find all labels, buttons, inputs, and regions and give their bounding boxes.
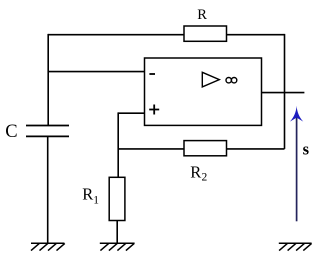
svg-text:C: C xyxy=(5,122,17,142)
wire non-inverting input (from + pin left) xyxy=(118,112,144,114)
svg-text:R: R xyxy=(190,163,201,182)
ground right xyxy=(279,243,312,250)
arrow s (output voltage) shaft xyxy=(296,116,298,221)
wire inverting input (to - pin) xyxy=(48,71,144,73)
svg-text:1: 1 xyxy=(93,194,99,206)
svg-text:2: 2 xyxy=(202,172,208,184)
resistor R2 xyxy=(184,141,227,156)
wire R1 to ground xyxy=(116,220,118,242)
resistor R xyxy=(184,26,227,41)
op-amp plus pin label xyxy=(149,105,159,115)
svg-text:R: R xyxy=(197,7,207,23)
op-amp minus pin label xyxy=(149,73,155,75)
op-amp gain triangle xyxy=(202,72,219,87)
op-amp U1 body xyxy=(145,58,262,125)
wire R2 horizontal xyxy=(118,148,284,150)
wire vertical from + input down to R1 xyxy=(117,112,119,177)
wire top feedback horizontal xyxy=(48,34,284,36)
capacitor C xyxy=(26,126,69,137)
wire left vertical from top wire to capacitor xyxy=(47,34,49,125)
wire right feedback vertical xyxy=(284,34,286,149)
ground left xyxy=(31,243,65,250)
svg-text:s: s xyxy=(303,139,310,158)
op-amp infinity symbol xyxy=(226,78,231,83)
ground middle xyxy=(100,243,135,250)
svg-text:R: R xyxy=(82,185,93,204)
wire capacitor to ground xyxy=(47,137,49,243)
wire op-amp output xyxy=(262,92,305,94)
arrow s head xyxy=(290,106,303,122)
resistor R1 xyxy=(109,177,125,220)
